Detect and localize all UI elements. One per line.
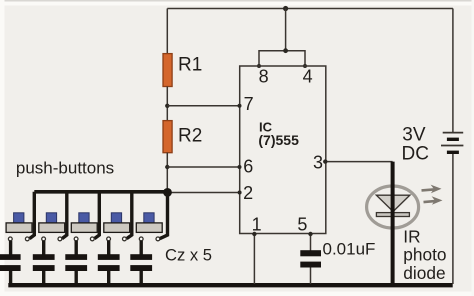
IR emission arrow 2 [424,196,443,205]
node pin 3 [323,159,327,163]
wire bracket pins 8 and 4 [259,51,305,66]
svg-text:4: 4 [303,67,313,87]
svg-text:3: 3 [313,153,323,173]
wire battery to ground [452,154,454,284]
capacitor Cz2 [33,241,55,285]
wire pin 7 [167,105,239,107]
svg-text:1: 1 [252,215,262,235]
capacitor C1 0.01uF [300,250,321,284]
wire bus drop to S5 [160,192,168,238]
wire push-button bus [34,190,167,194]
push-button S2 [39,213,65,241]
svg-text:5: 5 [297,215,307,235]
IC U1: 555 timer body [240,66,326,234]
svg-text:R1: R1 [178,55,202,76]
wire diode branch to ground [391,162,395,284]
capacitor Cz5 [130,241,152,285]
svg-text:push-buttons: push-buttons [16,158,114,177]
battery B1 3V [441,133,463,153]
svg-text:diode: diode [403,263,445,283]
svg-text:3V: 3V [402,124,426,145]
push-button S1 [6,213,32,241]
node pin 1 [252,232,256,236]
node pin 4 [303,64,307,68]
node pin 2 [238,191,242,195]
node pin 6 [238,165,242,169]
svg-text:6: 6 [243,156,253,176]
wire right rail to battery [452,9,454,133]
wire junction to pins 8-4 bracket [285,9,287,51]
wire left rail top to R1 [166,9,168,55]
node bracket center [283,48,288,53]
svg-text:0.01uF: 0.01uF [323,240,376,259]
wire bus drop to S3 [94,192,99,239]
node bus junction [163,188,172,197]
wire bus drop to S4 [127,192,132,239]
diode D1 IR photo diode [367,186,419,228]
push-button S5 [136,213,162,241]
svg-text:R2: R2 [178,126,202,147]
resistor R1 [163,54,172,87]
ground bus bottom rail [8,283,452,287]
svg-text:DC: DC [402,143,429,164]
node pin 7 [238,104,242,108]
svg-text:(7)555: (7)555 [258,132,299,148]
wire pin 2 [168,192,240,194]
resistor R2 [163,121,172,153]
wire pin 3 to diode [326,161,393,163]
wire pin 6 [167,166,239,168]
push-button S4 [104,213,130,241]
svg-text:7: 7 [244,94,254,114]
svg-text:photo: photo [403,245,446,265]
wire top rail [167,8,453,10]
capacitor Cz3 [65,241,87,285]
node pin 5 [308,232,312,236]
wire R2 to bus junction [166,153,168,193]
svg-text:Cz x 5: Cz x 5 [165,245,212,264]
wire R1 to R2 [166,87,168,122]
node top junction [283,6,288,11]
svg-text:8: 8 [259,67,269,87]
wire pin 1 to ground [253,234,255,285]
wire pin 5 to C1 [310,234,312,251]
capacitor Cz4 [98,241,120,285]
node pin 8 [257,64,261,68]
capacitor Cz1 [0,241,21,285]
wire bus drop to S1 [30,192,35,239]
IR emission arrow 1 [422,185,442,194]
node R1-R2 junction [165,104,169,108]
node pin 6 left [165,165,169,169]
svg-text:IR: IR [403,227,420,247]
svg-text:2: 2 [243,183,253,203]
push-button S3 [71,213,97,241]
wire bus drop to S2 [62,192,67,239]
